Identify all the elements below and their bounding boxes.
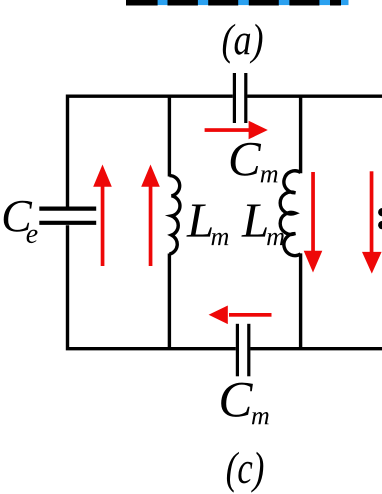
inductor L_m (left): [169, 176, 180, 255]
current arrow down (resonator 2, left): [304, 172, 323, 273]
label C_m (bottom): [221, 383, 269, 425]
label L_m (left): [186, 205, 228, 246]
current arrow up (left cell, inner-right): [141, 165, 160, 267]
wire resonator 1 (upper): [168, 95, 171, 177]
capacitor C_e: [39, 209, 96, 223]
label (c): [227, 452, 263, 493]
wire resonator 1 (lower): [168, 254, 171, 349]
wire bottom rail left: [68, 225, 236, 349]
wire top rail right: [247, 94, 382, 97]
current arrow down (right edge): [362, 171, 382, 273]
label C_m (top): [231, 143, 278, 183]
capacitor C_m (top): [234, 73, 245, 123]
inductor L_m (right): [280, 171, 300, 256]
label (a): [223, 24, 263, 64]
current arrow right (top C_m): [205, 121, 268, 140]
transformer ratio colon (right edge, cropped): [378, 208, 382, 229]
wire dashed blue/black line (top, cropped): [126, 0, 349, 6]
current arrow left (bottom C_m): [209, 306, 272, 325]
label L_m (right): [241, 205, 284, 246]
label C_e: [4, 201, 38, 243]
capacitor C_m (bottom): [237, 324, 248, 377]
wire resonator 2 (lower): [299, 253, 302, 348]
wire resonator 2 (upper): [299, 95, 302, 174]
current arrow up (left cell, inner-left): [93, 165, 112, 267]
wire bottom rail right: [250, 347, 382, 350]
wire top rail left: [68, 96, 233, 206]
